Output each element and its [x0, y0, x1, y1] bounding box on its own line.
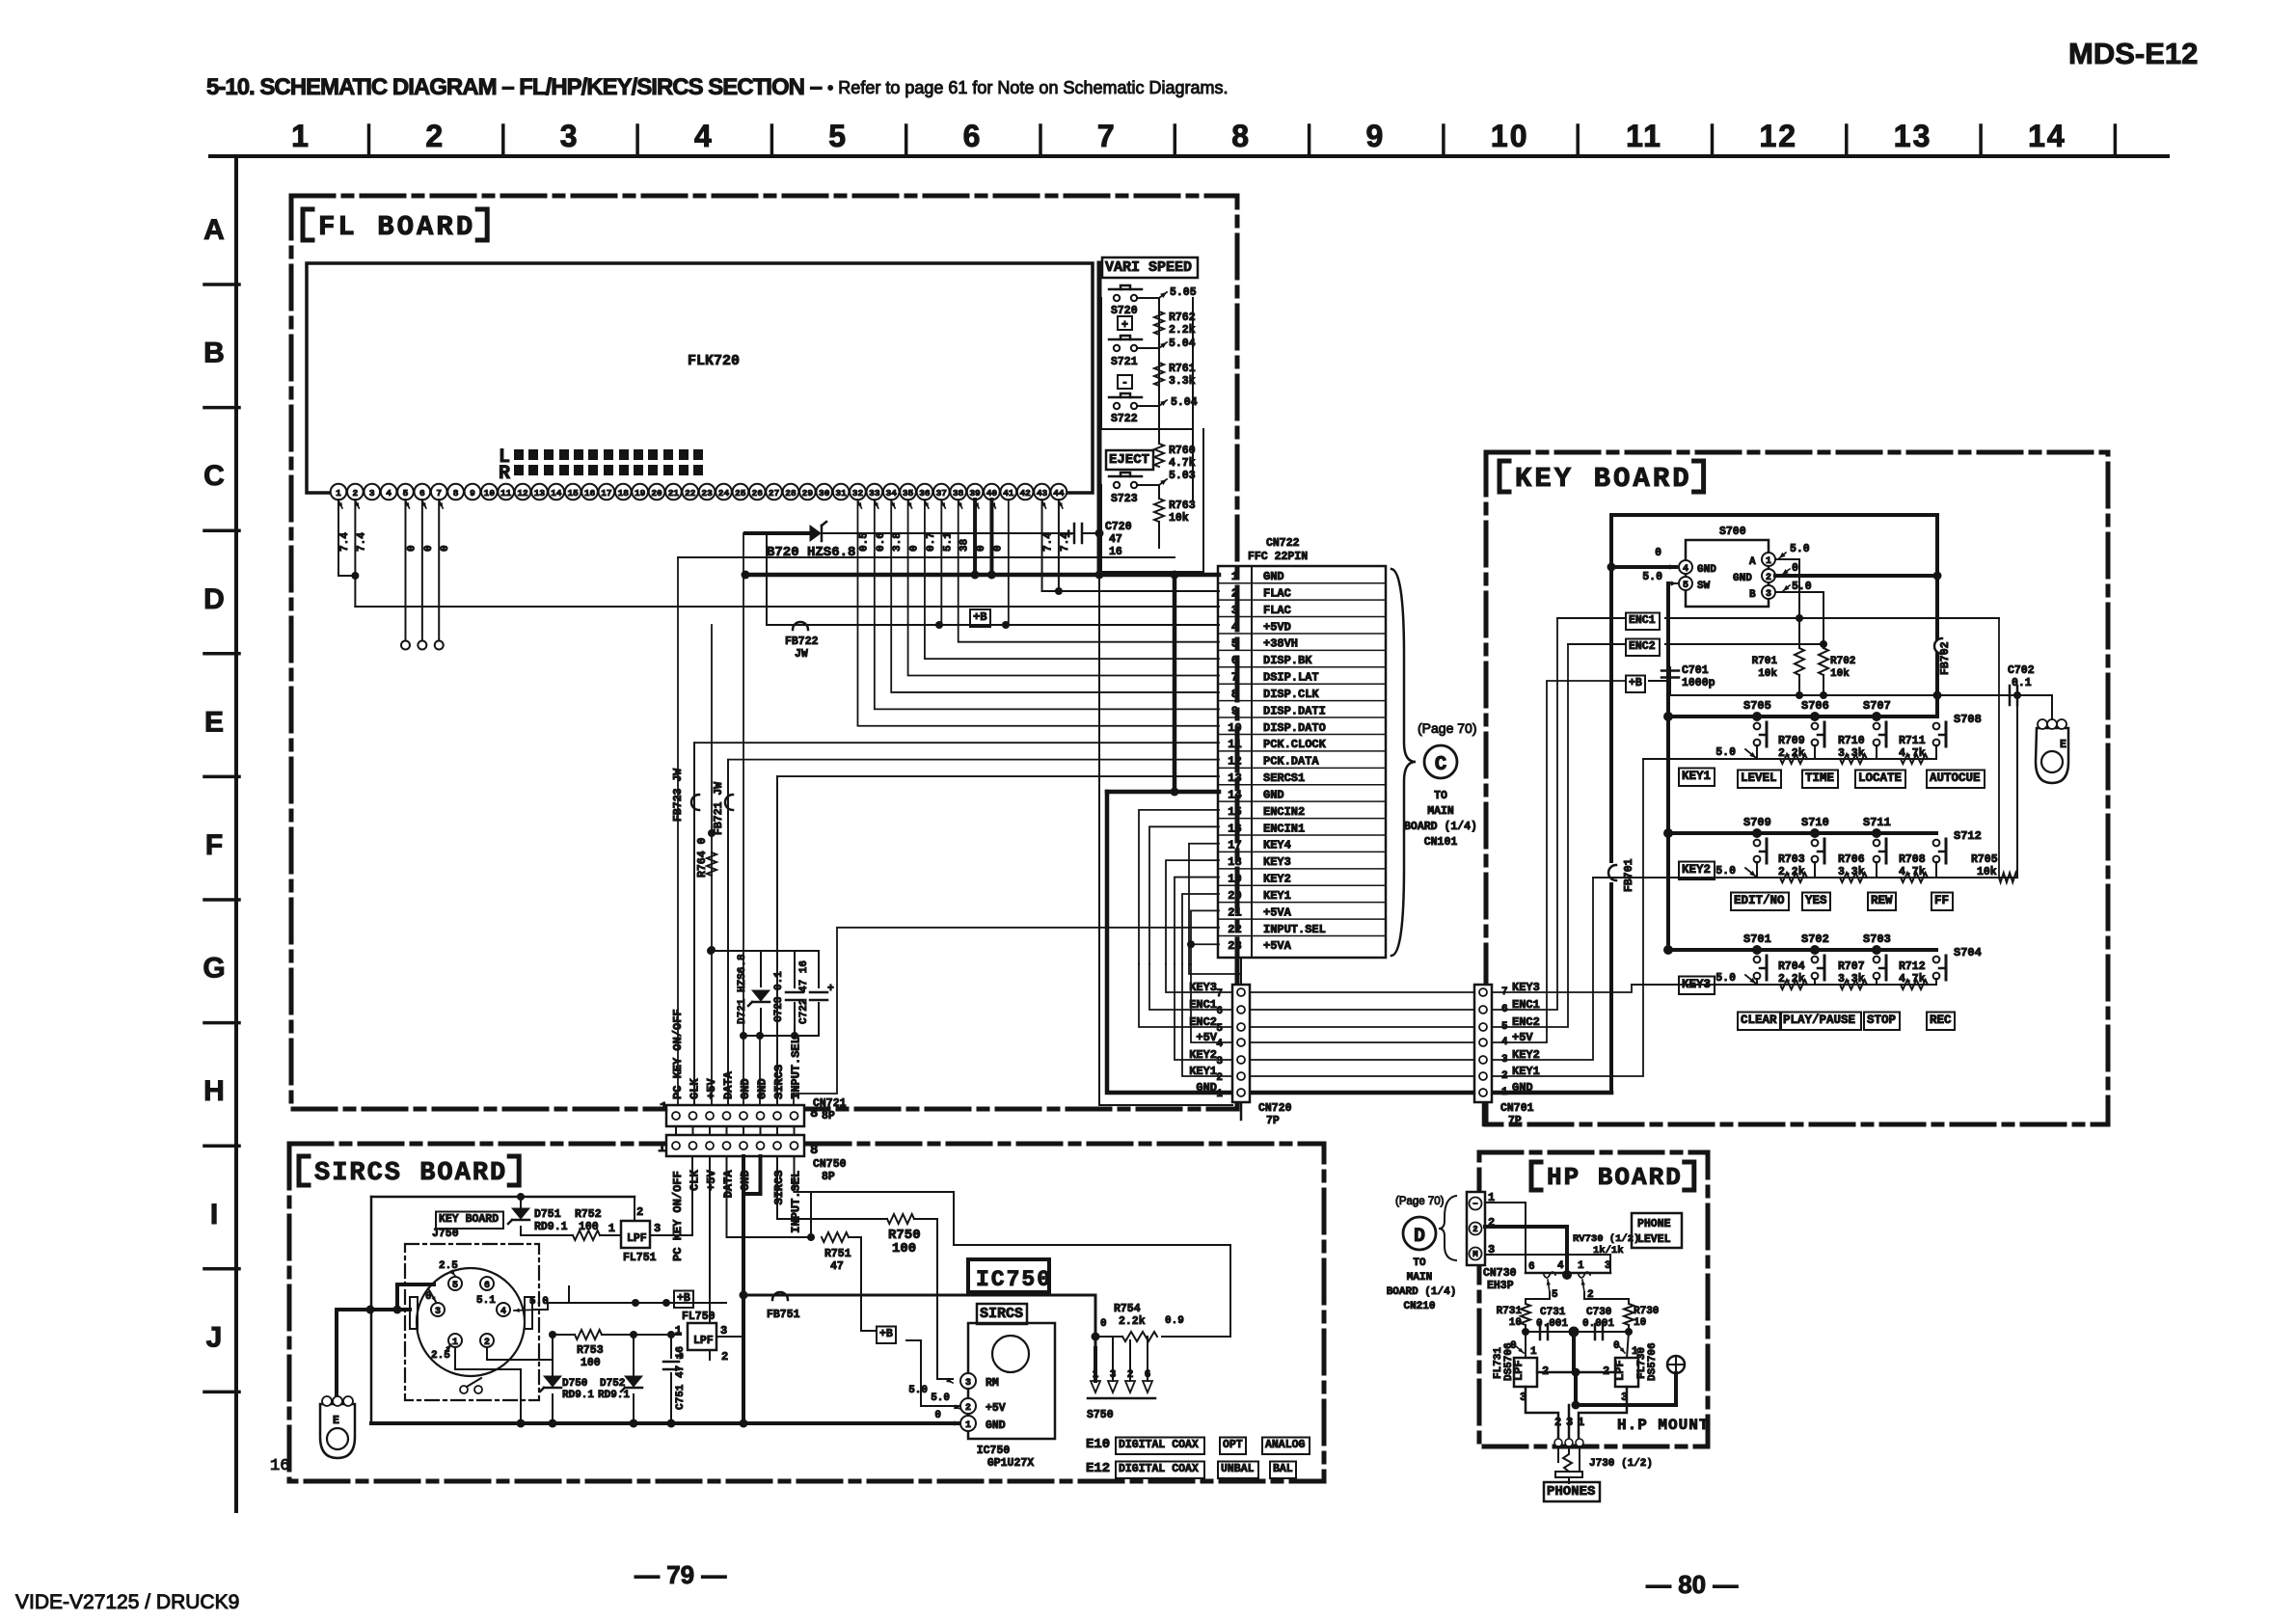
- svg-text:R711: R711: [1899, 735, 1926, 747]
- key cap label STOP: [1864, 1013, 1900, 1031]
- SIRCS BOARD title: [299, 1156, 309, 1185]
- low pass filter FL731 DS5706: [1514, 1358, 1537, 1387]
- svg-text:KEY1: KEY1: [1189, 1065, 1217, 1078]
- wire pin40 to GND bus: [989, 500, 993, 575]
- svg-text:CN701: CN701: [1500, 1102, 1534, 1115]
- +B label sircs: [674, 1291, 693, 1309]
- ruler tick: [1308, 125, 1311, 156]
- resistor R754 2.2k: [1122, 1332, 1157, 1341]
- wire C720 trunk continuation: [1098, 575, 1100, 1105]
- svg-text:20: 20: [1228, 889, 1241, 903]
- svg-text:D: D: [203, 583, 225, 615]
- resistor R750 100: [887, 1214, 914, 1224]
- svg-text:R762: R762: [1169, 311, 1196, 324]
- svg-text:GP1U27X: GP1U27X: [987, 1457, 1034, 1470]
- svg-text:FB702: FB702: [1939, 641, 1952, 675]
- svg-text:ENC2: ENC2: [1629, 640, 1656, 653]
- pin 34 level label 3.8: [891, 500, 895, 508]
- svg-text:R706: R706: [1838, 853, 1865, 866]
- svg-text:S750: S750: [1087, 1409, 1114, 1421]
- svg-text:ENCIN1: ENCIN1: [1263, 822, 1305, 835]
- low pass filter FL751: [621, 1221, 650, 1248]
- svg-text:2: 2: [1216, 1072, 1223, 1084]
- wire ENC1 riser: [1492, 618, 1557, 1010]
- svg-text:0.6: 0.6: [876, 532, 887, 552]
- svg-text:0.001: 0.001: [1536, 1318, 1568, 1330]
- svg-text:RD9.1: RD9.1: [598, 1390, 630, 1401]
- svg-text:KEY BOARD: KEY BOARD: [1515, 463, 1692, 495]
- svg-text:ENC1: ENC1: [1189, 998, 1217, 1012]
- matrix sense line KEY3: [1632, 984, 1936, 986]
- ruler tick: [2114, 125, 2118, 156]
- svg-text:+B: +B: [1629, 677, 1642, 689]
- svg-text:25: 25: [735, 488, 746, 499]
- svg-text:BAL: BAL: [1273, 1463, 1293, 1475]
- svg-text:D752: D752: [600, 1378, 625, 1390]
- matrix strobe line KEY3: [1668, 948, 1936, 952]
- wire pin7 open stub: [438, 500, 440, 640]
- svg-text:PCK.DATA: PCK.DATA: [1263, 755, 1319, 769]
- svg-text:RM: RM: [986, 1377, 999, 1390]
- left ruler tick: [204, 775, 239, 779]
- svg-text:C722 47 16: C722 47 16: [798, 960, 810, 1024]
- wire heavy into J750 pin3: [397, 1283, 434, 1286]
- svg-text:A: A: [203, 214, 225, 246]
- svg-text:LPF: LPF: [1613, 1360, 1627, 1381]
- svg-text:15: 15: [567, 488, 579, 499]
- svg-text:FLK720: FLK720: [688, 353, 740, 369]
- svg-text:GND: GND: [756, 1078, 770, 1099]
- svg-text:22: 22: [685, 488, 696, 499]
- svg-text:29: 29: [802, 488, 814, 499]
- wire CN720 KEY3 from table: [1240, 958, 1242, 985]
- svg-text:EJECT: EJECT: [1109, 452, 1149, 468]
- svg-text:+B: +B: [677, 1292, 690, 1305]
- svg-text:3: 3: [1766, 589, 1771, 600]
- svg-text:G: G: [203, 953, 225, 985]
- svg-text:13: 13: [534, 488, 546, 499]
- ferrite bead FB701: [1608, 865, 1616, 880]
- connector CN720 7P: [1232, 985, 1250, 1102]
- svg-text:5: 5: [1683, 581, 1688, 591]
- svg-text:C: C: [1435, 754, 1447, 776]
- KEY BOARD outline: [1486, 452, 2108, 1124]
- svg-text:2.5: 2.5: [431, 1350, 450, 1362]
- svg-text:ANALOG: ANALOG: [1265, 1439, 1306, 1451]
- key cap label REC: [1927, 1013, 1955, 1031]
- key cap label PLAY/PAUSE: [1780, 1013, 1861, 1031]
- svg-text:E: E: [204, 706, 224, 738]
- svg-text:3.3k: 3.3k: [1838, 747, 1865, 760]
- svg-text:MAIN: MAIN: [1427, 805, 1454, 818]
- rotary encoder S700: [1686, 540, 1769, 607]
- wire +5V riser: [711, 625, 713, 1105]
- zener diode D752 RD9.1: [625, 1376, 642, 1387]
- svg-text:4.7k: 4.7k: [1899, 973, 1926, 986]
- svg-text:KEY3: KEY3: [1263, 855, 1291, 869]
- ruler tick: [1174, 125, 1177, 156]
- resistor R705 10k: [1999, 873, 2017, 882]
- svg-text:12: 12: [1228, 755, 1241, 769]
- wire FL751 output to CLK: [650, 1156, 692, 1235]
- matrix sense line KEY2: [1593, 877, 2017, 879]
- svg-text:3.3k: 3.3k: [1838, 973, 1865, 986]
- svg-text:KEY3: KEY3: [1682, 978, 1711, 991]
- svg-text:0: 0: [934, 1410, 941, 1421]
- svg-text:KEY2: KEY2: [1263, 873, 1291, 886]
- wire pin39 to GND bus: [973, 500, 977, 575]
- svg-text:KEY1: KEY1: [1682, 770, 1711, 783]
- resistor R764 0: [707, 852, 716, 876]
- svg-text:3: 3: [369, 488, 375, 499]
- svg-text:CN210: CN210: [1403, 1301, 1435, 1312]
- svg-text:IC750: IC750: [977, 1445, 1011, 1457]
- svg-text:LOCATE: LOCATE: [1858, 771, 1902, 785]
- svg-text:AUTOCUE: AUTOCUE: [1930, 771, 1981, 785]
- svg-text:EH3P: EH3P: [1487, 1280, 1514, 1292]
- svg-text:S721: S721: [1111, 356, 1138, 368]
- pot wiper right: [1579, 1272, 1590, 1278]
- matrix frame heavy right: [1935, 515, 1939, 638]
- switch S703: [1874, 957, 1880, 963]
- svg-text:+5VA: +5VA: [1263, 906, 1292, 919]
- svg-text:+5V: +5V: [705, 1078, 718, 1099]
- wire nested drops to CN720 pins: [1166, 964, 1232, 992]
- capacitor C731 0.001: [1539, 1324, 1542, 1339]
- svg-text:MDS-E12: MDS-E12: [2068, 37, 2198, 70]
- svg-text:3: 3: [560, 119, 580, 153]
- wire CN730 pin2 heavy to wipers: [1485, 1227, 1567, 1273]
- svg-text:R712: R712: [1899, 960, 1926, 973]
- wire GND riser sircs: [742, 1156, 745, 1423]
- pin 35 level label 0: [908, 500, 912, 508]
- node 5.04: [1159, 342, 1167, 348]
- svg-text:DATA: DATA: [722, 1070, 736, 1099]
- svg-text:44: 44: [1053, 488, 1065, 499]
- left ruler tick: [204, 1391, 239, 1394]
- svg-text:13: 13: [1228, 771, 1241, 785]
- J750 terminal tab left: [410, 1297, 418, 1329]
- svg-text:6: 6: [963, 119, 983, 153]
- svg-text:2: 2: [1127, 1369, 1134, 1381]
- resistor R701 10k: [1798, 618, 1800, 648]
- wire input bias tap: [810, 1192, 812, 1237]
- left ruler tick: [204, 652, 239, 656]
- svg-text:0: 0: [423, 545, 435, 552]
- key cap label LEVEL: [1738, 770, 1781, 789]
- wire bias rail: [1670, 694, 2017, 696]
- pin 38 level label 38: [959, 500, 962, 508]
- switch inside J750: [460, 1386, 468, 1393]
- svg-text:I: I: [210, 1199, 218, 1230]
- left ruler line: [234, 156, 238, 1511]
- wire pin37 to row4: [940, 500, 942, 625]
- capacitor C701 1000p: [1669, 667, 1671, 681]
- svg-text:5.04: 5.04: [1169, 338, 1196, 350]
- svg-text:FLAC: FLAC: [1263, 586, 1291, 600]
- switch S711: [1874, 840, 1880, 847]
- svg-text:-: -: [1121, 377, 1128, 390]
- J750 terminal tab right: [525, 1297, 532, 1329]
- low pass filter FL750: [688, 1323, 716, 1350]
- svg-text:3: 3: [1216, 1056, 1223, 1068]
- svg-text:11: 11: [1626, 119, 1662, 153]
- svg-text:BOARD (1/4): BOARD (1/4): [1404, 821, 1477, 833]
- svg-text:+5VD: +5VD: [1263, 620, 1291, 634]
- svg-text:C730: C730: [1586, 1307, 1611, 1318]
- left ruler tick: [204, 1267, 239, 1271]
- matrix strobe line KEY1: [1668, 715, 1936, 718]
- switch S710: [1812, 840, 1819, 847]
- svg-text:GND: GND: [1697, 564, 1716, 576]
- ferrite bead FB721 JW: [725, 795, 733, 810]
- svg-text:3.8: 3.8: [892, 532, 904, 552]
- left ruler tick: [204, 898, 239, 902]
- svg-text:34: 34: [886, 488, 898, 499]
- +B label: [970, 609, 990, 627]
- svg-text:GND: GND: [1512, 1081, 1533, 1095]
- svg-text:D750: D750: [562, 1378, 587, 1390]
- wire J750 pin4 feed line: [532, 1303, 726, 1310]
- svg-text:0.1: 0.1: [2012, 677, 2032, 689]
- svg-text:R751: R751: [824, 1248, 851, 1260]
- svg-text:TO: TO: [1413, 1257, 1426, 1269]
- svg-text:FL751: FL751: [623, 1252, 657, 1264]
- svg-text:4: 4: [694, 119, 714, 153]
- svg-text:0.7: 0.7: [926, 532, 937, 552]
- wire FL750 pin2 +5V: [709, 1156, 711, 1350]
- wire ENC2: [1568, 643, 1625, 645]
- low pass filter FL730 DS5706: [1615, 1358, 1638, 1387]
- svg-text:R710: R710: [1838, 735, 1865, 747]
- svg-text:C731: C731: [1540, 1307, 1566, 1318]
- J750 pin 6: [480, 1277, 494, 1290]
- svg-text:C751 47 16: C751 47 16: [675, 1346, 687, 1410]
- ruler tick: [367, 125, 371, 156]
- wire S700 pin4 GND: [1611, 565, 1676, 569]
- wire CN730 pin1 to pot: [1485, 1203, 1526, 1273]
- J750 pin 2: [480, 1334, 494, 1347]
- svg-text:31: 31: [835, 488, 847, 499]
- svg-text:R: R: [499, 463, 510, 485]
- svg-text:FB751: FB751: [767, 1309, 800, 1321]
- resistor R751 47: [807, 1233, 815, 1241]
- svg-text:GND: GND: [1263, 570, 1284, 583]
- svg-text:SERCS1: SERCS1: [1263, 771, 1305, 785]
- wire GND sub bus: [743, 1035, 819, 1037]
- svg-text:1: 1: [1766, 556, 1771, 567]
- resistor R704 2.2k: [1780, 980, 1807, 989]
- pin 2 level label 7.4: [355, 500, 359, 508]
- wire FL750 pin3: [716, 1295, 743, 1337]
- node 5.04 lower: [1159, 400, 1167, 406]
- svg-text:S705: S705: [1743, 699, 1771, 713]
- svg-text:FB722: FB722: [785, 635, 819, 648]
- svg-text:9: 9: [1231, 704, 1238, 717]
- svg-text:5: 5: [403, 488, 409, 499]
- remote receiver IC750 GP1U27X: [968, 1323, 1055, 1439]
- wire to FL730: [1627, 1332, 1629, 1358]
- svg-text:21: 21: [1228, 906, 1241, 919]
- svg-text:RD9.1: RD9.1: [562, 1390, 594, 1401]
- svg-text:CN101: CN101: [1424, 836, 1458, 849]
- wire GND riser pin6: [759, 1036, 761, 1105]
- FLK720 pins 1-44: [331, 484, 1067, 500]
- svg-text:1: 1: [1231, 570, 1238, 583]
- svg-text:4: 4: [500, 1307, 506, 1317]
- +B label key board: [1626, 676, 1645, 693]
- node 5.05: [1159, 292, 1167, 298]
- pin 5 level label 0: [405, 500, 409, 508]
- svg-text:15: 15: [1228, 805, 1241, 819]
- wire heavy vertical FLK720 to GND bus: [1097, 263, 1102, 575]
- svg-text:TIME: TIME: [1805, 771, 1834, 785]
- svg-text:OPT: OPT: [1223, 1439, 1243, 1451]
- resistor R761 3.3k: [1154, 363, 1164, 386]
- rail for R762/R761: [1158, 298, 1160, 444]
- svg-text:10: 10: [484, 488, 496, 499]
- svg-text:C723 0.1: C723 0.1: [773, 971, 785, 1022]
- svg-text:10: 10: [1228, 721, 1241, 735]
- svg-text:1: 1: [675, 1324, 682, 1338]
- wire wiper right drop: [1584, 1292, 1629, 1304]
- svg-text:0: 0: [406, 545, 418, 552]
- resistor R712 4.7k: [1901, 980, 1928, 989]
- svg-text:18: 18: [618, 488, 630, 499]
- resistor R706 3.3k: [1840, 873, 1867, 882]
- svg-text:S708: S708: [1954, 713, 1982, 726]
- svg-text:2: 2: [1472, 1225, 1477, 1234]
- wire jack common heavy: [1576, 1372, 1676, 1405]
- svg-text:JW: JW: [795, 648, 808, 661]
- wire right thin drop: [1998, 618, 2000, 878]
- KEY BOARD sub label: [436, 1212, 503, 1230]
- pin 6 level label 0: [422, 500, 426, 508]
- svg-text:LPF: LPF: [693, 1335, 714, 1347]
- wire GND heavy trunk: [1107, 792, 1611, 1093]
- svg-text:R730: R730: [1634, 1306, 1659, 1317]
- svg-text:YES: YES: [1805, 894, 1827, 907]
- svg-text:3: 3: [965, 1378, 971, 1389]
- svg-text:1: 1: [1093, 1369, 1099, 1381]
- svg-text:KEY3: KEY3: [1189, 981, 1217, 994]
- earth terminal E key board: [2051, 695, 2053, 725]
- svg-text:2.2k: 2.2k: [1778, 866, 1805, 879]
- svg-text:17: 17: [601, 488, 612, 499]
- svg-text:16: 16: [584, 488, 596, 499]
- wires CN721 to CN750: [675, 1126, 677, 1135]
- wire SIRCS drop to R750: [777, 1156, 887, 1219]
- matrix frame heavy left with FB701: [1609, 515, 1613, 861]
- svg-text:CLK: CLK: [689, 1078, 702, 1099]
- wire S700 pin3 B: [1775, 591, 1823, 593]
- svg-text:R705: R705: [1971, 853, 1998, 866]
- svg-text:5.1: 5.1: [942, 532, 954, 552]
- svg-text:7.4: 7.4: [339, 532, 351, 552]
- svg-text:26: 26: [752, 488, 764, 499]
- svg-text:5.03: 5.03: [1169, 470, 1196, 482]
- svg-text:C720: C720: [1105, 521, 1132, 533]
- wire FL730 out: [1579, 1387, 1627, 1439]
- wire S700 pin1 A: [1775, 558, 1799, 560]
- svg-text:13: 13: [1894, 119, 1932, 153]
- svg-text:23: 23: [701, 488, 713, 499]
- resistor R730 10: [1624, 1304, 1634, 1325]
- capacitor C730 0.001: [1594, 1324, 1597, 1339]
- svg-text:CN720: CN720: [1258, 1102, 1292, 1115]
- svg-text:UNBAL: UNBAL: [1221, 1463, 1255, 1475]
- svg-text:5: 5: [828, 119, 848, 153]
- ruler tick: [1442, 125, 1445, 156]
- svg-text:S700: S700: [1719, 526, 1746, 538]
- wire CLK riser: [693, 743, 695, 1105]
- wire PC-KEY line upper: [678, 556, 1175, 558]
- wire LPF pin2 join: [1537, 1371, 1615, 1374]
- svg-text:5.0: 5.0: [1715, 865, 1736, 878]
- svg-text:R754: R754: [1114, 1303, 1141, 1315]
- svg-text:2.2k: 2.2k: [1119, 1315, 1146, 1328]
- svg-text:18: 18: [1228, 855, 1241, 869]
- wire S700 pin5 SW: [1668, 582, 1677, 584]
- svg-text:5: 5: [1231, 637, 1238, 651]
- svg-text:2: 2: [636, 1205, 643, 1219]
- svg-text:4.7k: 4.7k: [1169, 457, 1196, 470]
- wire cap row: [1526, 1331, 1629, 1333]
- switch S721: [1114, 345, 1120, 351]
- svg-text:24: 24: [718, 488, 730, 499]
- pot wiper left: [1544, 1272, 1555, 1278]
- svg-text:STOP: STOP: [1867, 1014, 1896, 1027]
- IC750 label: [968, 1259, 1049, 1292]
- resistor R731 10: [1521, 1304, 1530, 1325]
- svg-text:0: 0: [992, 545, 1004, 552]
- wire R753 row: [553, 1334, 575, 1336]
- svg-text:S701: S701: [1743, 933, 1771, 946]
- svg-text:1: 1: [1216, 1089, 1223, 1100]
- svg-text:17: 17: [1228, 839, 1241, 852]
- eject block frame: [1101, 429, 1203, 572]
- left ruler tick: [204, 528, 239, 532]
- wire pin column to table row 6: [925, 500, 1219, 659]
- svg-text:6: 6: [419, 488, 425, 499]
- svg-text:33: 33: [869, 488, 880, 499]
- svg-text:RV730 (1/2): RV730 (1/2): [1573, 1233, 1639, 1245]
- KEY BOARD title: [1499, 461, 1509, 492]
- svg-text:M: M: [1472, 1250, 1477, 1259]
- svg-text:DISP.DATI: DISP.DATI: [1263, 704, 1326, 717]
- svg-text:9: 9: [470, 488, 475, 499]
- J750 pin 4: [497, 1303, 510, 1316]
- svg-text:DISP.BK: DISP.BK: [1263, 654, 1312, 667]
- wire pin2 drop to FLAC row: [354, 500, 356, 607]
- svg-text:10k: 10k: [1977, 866, 1997, 879]
- svg-text:R701: R701: [1752, 656, 1778, 667]
- wire +5V riser: [1492, 681, 1625, 1042]
- svg-text:19: 19: [1228, 873, 1241, 886]
- FL BOARD outline: [291, 196, 1237, 1109]
- svg-text:5.0: 5.0: [908, 1385, 928, 1396]
- svg-text:R704: R704: [1778, 960, 1805, 973]
- ENC2 label: [1626, 639, 1660, 657]
- svg-text:10: 10: [1634, 1317, 1646, 1329]
- wire center heavy: [1572, 1332, 1576, 1372]
- svg-text:R708: R708: [1899, 853, 1926, 866]
- wire pin column to table row 5: [959, 500, 1219, 642]
- svg-text:J: J: [206, 1321, 223, 1353]
- wire table row 17 drop: [1189, 844, 1219, 964]
- wire S720-S722 right contacts to rail: [1137, 297, 1159, 299]
- wire SIRCS riser: [776, 776, 778, 1105]
